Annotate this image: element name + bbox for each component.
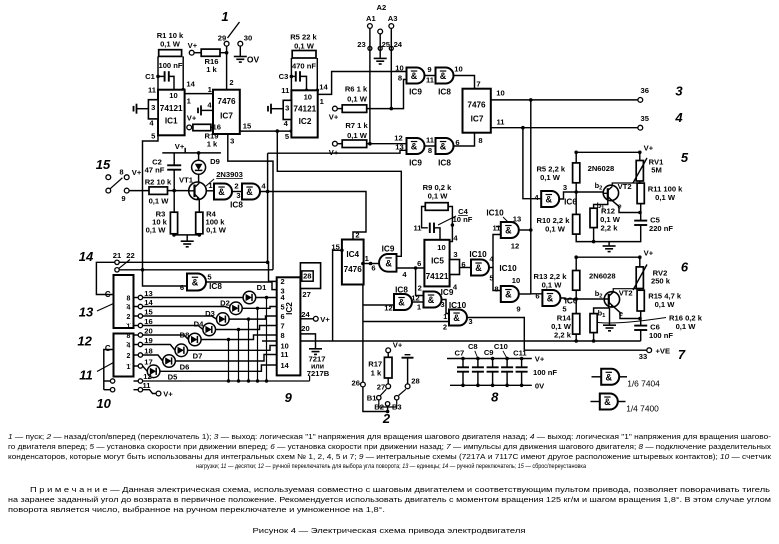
R5 left lead down: [290, 58, 292, 90]
bus stub at 257.5: [257, 308, 259, 381]
svg-text:12: 12: [77, 334, 92, 349]
junction A3/R6 wire: [390, 107, 394, 111]
V+ rail left dot s5: [574, 151, 578, 155]
svg-text:&: &: [505, 290, 512, 300]
svg-text:V+: V+: [132, 168, 142, 177]
svg-text:C9: C9: [484, 348, 494, 357]
svg-text:8: 8: [398, 74, 402, 83]
resistor R16: [201, 49, 220, 56]
capacitor C1: [165, 71, 169, 81]
capacitor C10: [501, 367, 513, 371]
capacitor C11 top lead: [521, 359, 523, 368]
svg-text:47 nF: 47 nF: [145, 166, 165, 175]
contact 9: [124, 188, 129, 193]
resistor R4: [196, 212, 203, 234]
svg-text:9: 9: [285, 390, 293, 405]
svg-text:7217В: 7217В: [307, 369, 330, 378]
nand IC9 top: [407, 68, 425, 84]
svg-text:C1: C1: [145, 72, 155, 81]
svg-text:100 nF: 100 nF: [158, 61, 182, 70]
svg-text:V+: V+: [163, 390, 173, 399]
switch pin stub row 13: [134, 297, 139, 299]
row12 stub: [134, 380, 139, 382]
IC10e out to +VE: [467, 318, 647, 351]
svg-text:12: 12: [511, 242, 519, 251]
svg-text:24: 24: [394, 40, 403, 49]
IC10t leader: [503, 217, 508, 222]
terminal 21: [115, 260, 119, 264]
resistor R9: [425, 203, 448, 211]
wire row 20 to IC2: [201, 335, 277, 340]
junction C1 left: [156, 75, 160, 79]
junction C10 top: [505, 357, 509, 361]
svg-text:&: &: [440, 142, 447, 152]
terminal A3: [389, 24, 394, 29]
svg-text:4: 4: [127, 342, 131, 349]
wire W3: [277, 131, 401, 256]
svg-text:2: 2: [234, 182, 238, 191]
svg-text:&: &: [453, 313, 460, 323]
svg-text:V+: V+: [644, 144, 654, 153]
nand IC6 a: [541, 191, 559, 207]
wire output 36: [491, 99, 638, 101]
nand IC8 c: [187, 274, 206, 291]
svg-text:10: 10: [169, 91, 177, 100]
RV2 arrow: [633, 265, 647, 291]
R14 top lead: [575, 299, 577, 314]
stub top dot 238.5: [237, 328, 240, 331]
C4 right lead: [434, 228, 440, 240]
svg-text:&: &: [385, 259, 392, 269]
capacitor C3: [296, 71, 300, 81]
svg-text:13: 13: [79, 305, 94, 320]
svg-text:V+: V+: [187, 114, 197, 123]
contact A2 jumper: [378, 46, 382, 50]
svg-text:C7: C7: [455, 348, 465, 357]
svg-text:8: 8: [127, 295, 131, 302]
svg-text:11: 11: [142, 381, 151, 390]
svg-text:3: 3: [675, 84, 683, 99]
svg-text:100 nF: 100 nF: [533, 368, 557, 377]
wire W2 vertical: [267, 153, 269, 262]
IC2 7217 crystal frame outer: [300, 263, 320, 289]
wire row 17 to IC2: [160, 365, 277, 371]
wire row 17: [143, 366, 148, 371]
stub top dot 257.5: [256, 307, 259, 310]
IC6b out to VT2 base: [560, 298, 604, 299]
svg-text:1 — пуск; 2 — назад/стоп/впер: 1 — пуск; 2 — назад/стоп/вперед (переклю…: [8, 432, 772, 441]
IC2 pin3 box: [283, 100, 291, 119]
junction R14 rail: [574, 339, 578, 343]
svg-text:&: &: [604, 397, 611, 407]
svg-text:IC7: IC7: [220, 112, 233, 121]
junction wire35: [521, 126, 525, 130]
svg-text:D4: D4: [194, 320, 204, 329]
svg-text:10: 10: [304, 92, 312, 101]
counter IC2 7217 body: [277, 277, 301, 375]
R19 right lead: [211, 126, 213, 128]
svg-text:36: 36: [640, 86, 648, 95]
wire row 13 to IC2: [256, 297, 277, 299]
svg-text:IC8: IC8: [230, 201, 243, 210]
svg-text:0,1 W: 0,1 W: [655, 300, 676, 309]
contact 28: [405, 384, 410, 389]
svg-text:14: 14: [79, 249, 94, 264]
R3 bottom lead: [174, 234, 199, 235]
terminal 10b: [110, 388, 114, 392]
wire IC4 pin15 down to rail: [333, 250, 342, 341]
row11 stub: [134, 389, 139, 391]
R5 right lead down: [316, 58, 318, 90]
nand IC9 bottom: [407, 138, 425, 154]
svg-text:IC8: IC8: [209, 282, 222, 291]
svg-text:IC8: IC8: [395, 286, 408, 295]
terminal A2: [378, 29, 383, 34]
e lead to C5 s5: [612, 201, 640, 213]
V+ terminal R7: [333, 141, 338, 146]
svg-text:10: 10: [437, 243, 445, 252]
svg-text:0,1 W: 0,1 W: [542, 281, 563, 290]
wire IC8b out to IC4 pin2: [260, 192, 366, 239]
svg-text:R7 1 k: R7 1 k: [345, 121, 368, 130]
svg-text:2,2 k: 2,2 k: [554, 330, 572, 339]
svg-text:8: 8: [491, 390, 499, 405]
R16 leader curve: [598, 318, 666, 323]
stub bottom dot 257.5: [256, 379, 259, 382]
wire IC7 pin3 down: [228, 134, 273, 270]
vertical from IC1 pin5: [143, 135, 188, 286]
svg-text:IC9: IC9: [441, 288, 454, 297]
R17 bottom lead: [387, 378, 389, 384]
svg-text:0V: 0V: [535, 382, 545, 391]
switch pin stub row 20: [134, 334, 139, 336]
7400 output stub: [618, 401, 626, 403]
svg-text:R17: R17: [368, 360, 382, 369]
svg-text:5: 5: [281, 303, 285, 312]
svg-text:28: 28: [303, 272, 311, 281]
ground 0V: [234, 57, 247, 63]
switch pin 19: [138, 342, 142, 346]
C6 bottom lead: [640, 330, 642, 341]
junction IC4 pin1: [361, 262, 365, 266]
svg-text:D6: D6: [180, 363, 190, 372]
svg-text:R2 10 k: R2 10 k: [145, 177, 172, 186]
junction C10 bottom: [505, 384, 509, 388]
svg-text:0,1 W: 0,1 W: [540, 173, 561, 182]
wire 21 to IC2 pin2: [119, 262, 277, 281]
IC10t input stub: [496, 226, 501, 228]
switch pin 20: [138, 333, 142, 337]
svg-text:D3: D3: [205, 309, 215, 318]
svg-text:1 k: 1 k: [371, 369, 382, 378]
svg-text:1: 1: [127, 364, 131, 371]
svg-text:0,1 W: 0,1 W: [545, 225, 566, 234]
svg-text:9: 9: [121, 194, 125, 203]
svg-text:&: &: [440, 71, 447, 81]
B2 to bottom: [387, 406, 389, 412]
terminal 33 +VE: [647, 348, 652, 353]
svg-text:3: 3: [440, 300, 444, 309]
IC9d out to IC10e: [442, 300, 450, 314]
capacitor C9 top lead: [492, 359, 494, 368]
capacitor C11 bottom lead: [521, 372, 523, 386]
switch15 pole a: [106, 175, 111, 180]
IC8c out to IC2 pin3: [206, 282, 277, 290]
svg-text:2: 2: [127, 314, 131, 321]
junction IC9c out: [414, 266, 418, 270]
svg-text:7: 7: [281, 322, 285, 331]
svg-text:0,1 W: 0,1 W: [146, 226, 167, 235]
svg-text:14: 14: [319, 83, 328, 92]
wire row 14 to IC2: [242, 307, 277, 309]
svg-text:11: 11: [496, 118, 505, 127]
one-shot IC5 74121 body: [424, 240, 449, 287]
svg-text:10: 10: [395, 64, 403, 73]
svg-text:1/4 7400: 1/4 7400: [626, 404, 659, 414]
R10 top lead: [575, 192, 577, 214]
b1 lead s5: [594, 199, 608, 208]
junction C11 bottom: [520, 384, 524, 388]
V+ dot section6: [638, 255, 642, 259]
R3 top lead: [173, 191, 175, 213]
lower C wire: [104, 350, 114, 390]
svg-text:3: 3: [453, 250, 457, 259]
wire IC2 pin1 up right: [318, 72, 407, 95]
wire IC4 out to IC9c: [364, 263, 380, 265]
svg-text:7217: 7217: [309, 355, 326, 364]
svg-text:470 nF: 470 nF: [292, 62, 316, 71]
R17 top lead: [387, 353, 389, 358]
svg-text:3: 3: [230, 137, 234, 146]
vertical IC9c to IC9d: [416, 268, 424, 296]
C4 leader: [438, 216, 456, 225]
IC10t out to bus: [519, 229, 531, 231]
C8 label leader: [475, 351, 478, 359]
svg-text:20: 20: [144, 327, 152, 336]
resistor R17: [384, 357, 392, 378]
wire 11 to V+: [143, 390, 157, 394]
resistor R2: [149, 187, 168, 195]
svg-text:IC10: IC10: [486, 209, 504, 218]
switch pin 14: [138, 304, 142, 308]
junction R5v on base wire: [574, 190, 578, 194]
transistor VT2 section5: [603, 185, 618, 201]
svg-text:OV: OV: [247, 55, 260, 65]
svg-text:74121: 74121: [426, 272, 449, 281]
capacitor C4: [430, 223, 434, 233]
svg-text:0,1 W: 0,1 W: [206, 226, 227, 235]
wire row 18: [143, 355, 163, 361]
lever 27 to B1: [380, 389, 386, 395]
junction C2/R3: [172, 189, 176, 193]
ground stub s5: [608, 242, 610, 246]
rheostat RV2: [636, 267, 643, 289]
svg-text:0,1 W: 0,1 W: [347, 131, 368, 140]
V+ terminal R19: [187, 125, 192, 130]
R12 bottom lead: [593, 228, 595, 242]
resistor R12: [590, 208, 597, 227]
7404 output stub: [619, 376, 627, 378]
svg-text:B1: B1: [367, 393, 377, 402]
svg-text:6: 6: [461, 260, 465, 269]
svg-text:7: 7: [476, 80, 480, 89]
svg-text:2: 2: [127, 353, 131, 360]
svg-text:74121: 74121: [293, 105, 316, 114]
switch15 lever: [110, 178, 122, 189]
resistor R5 22k: [292, 51, 316, 59]
V+ dot section5: [638, 151, 642, 155]
svg-text:9: 9: [516, 305, 520, 314]
svg-text:&: &: [411, 71, 418, 81]
svg-text:IC9: IC9: [409, 88, 422, 97]
wire IC8 top to IC7 pin7: [454, 76, 475, 89]
svg-text:10: 10: [512, 276, 520, 285]
wire A3 vertical: [390, 28, 392, 108]
svg-text:нагрузки; 11 — десятки; 12 — р: нагрузки; 11 — десятки; 12 — ручной пере…: [196, 462, 586, 470]
junction pin15 wire: [276, 129, 280, 133]
resistor R13: [573, 271, 580, 291]
svg-text:IC8: IC8: [438, 88, 451, 97]
svg-text:R5 22 k: R5 22 k: [290, 33, 317, 42]
svg-text:11: 11: [426, 136, 435, 145]
row12 bus: [143, 380, 310, 382]
wire 9 to R2: [129, 190, 149, 192]
svg-text:VT2: VT2: [619, 289, 633, 298]
junction C7 bottom: [461, 384, 465, 388]
svg-text:&: &: [606, 372, 613, 382]
stub top dot 228.5: [227, 338, 230, 341]
wire row 19: [143, 345, 175, 351]
junction R16v rail: [592, 339, 596, 343]
svg-text:6: 6: [417, 259, 421, 268]
lever 28 to B3: [399, 389, 406, 395]
wire IC9c out: [397, 267, 425, 269]
contact A3 jumper: [389, 46, 393, 50]
thumbwheel switch lower: [114, 334, 134, 377]
wire IC7 pin15 to IC2 pin5: [240, 130, 292, 132]
junction pin15 at IC2: [290, 129, 294, 133]
resistor R16 0.2k: [590, 314, 597, 333]
svg-text:7476: 7476: [467, 101, 486, 110]
svg-text:IC2: IC2: [299, 117, 312, 126]
svg-text:Рисунок 4 — Электрическая схем: Рисунок 4 — Электрическая схема привода …: [253, 526, 526, 535]
svg-text:8: 8: [428, 146, 432, 155]
wire 28 vertical: [407, 358, 409, 384]
junction W2/IC8b wire: [266, 190, 270, 194]
switch pin 11: [138, 388, 142, 392]
B3 to bottom: [388, 400, 397, 407]
diode D3: [217, 313, 230, 326]
ground at IC7 pin4: [198, 105, 201, 115]
stub top dot 266.5: [265, 296, 268, 299]
contact B2: [385, 402, 389, 406]
ground between R3 R4: [181, 241, 194, 247]
IC2 7217 crystal frame inner: [302, 271, 313, 281]
resistor R1: [159, 50, 182, 57]
svg-text:&: &: [218, 187, 225, 197]
spare gate 7400: [600, 394, 618, 410]
svg-text:11: 11: [426, 76, 435, 85]
svg-text:8: 8: [478, 136, 482, 145]
svg-text:IC2: IC2: [285, 302, 294, 315]
svg-text:5: 5: [681, 150, 689, 165]
svg-text:3: 3: [236, 191, 240, 200]
junction C8 bottom: [476, 384, 480, 388]
V+ rail left dot s6: [574, 255, 578, 259]
capacitor C9 bottom lead: [492, 372, 494, 386]
switch pin 15: [138, 314, 142, 318]
stub bottom dot 266.5: [265, 379, 268, 382]
V+ tick: [184, 148, 186, 153]
svg-text:C10: C10: [494, 342, 508, 351]
junction C8 top: [476, 357, 480, 361]
R1 left lead down: [157, 56, 159, 89]
svg-text:D5: D5: [168, 373, 178, 382]
svg-text:R6 1 k: R6 1 k: [345, 85, 368, 94]
junction C9 bottom: [491, 384, 495, 388]
svg-text:2: 2: [355, 231, 359, 240]
junction R9 loop: [451, 223, 455, 227]
svg-text:&: &: [192, 278, 199, 288]
switch pin 13: [138, 295, 142, 299]
ground A2: [374, 58, 387, 64]
switch15 pole b: [106, 188, 111, 193]
svg-text:15: 15: [243, 122, 252, 131]
capacitor C7 bottom lead: [462, 372, 464, 386]
terminal 35: [638, 125, 643, 130]
nand IC8 mid: [394, 294, 412, 310]
svg-text:4: 4: [674, 110, 683, 125]
junction 22/vertical: [141, 268, 145, 272]
svg-text:A1: A1: [366, 14, 376, 23]
ground lead IC2 pin3: [272, 108, 284, 110]
junction R13 base wire: [574, 297, 578, 301]
svg-text:0,1 W: 0,1 W: [149, 197, 170, 206]
wire output 35: [491, 127, 638, 129]
nand IC10 e: [449, 310, 467, 326]
svg-text:IC1: IC1: [165, 117, 178, 126]
wire 10b: [104, 389, 111, 391]
junction e/R11/C5: [638, 211, 642, 215]
ground pin20: [309, 349, 322, 355]
terminal 22: [115, 268, 119, 272]
capacitor C8 top lead: [477, 359, 479, 368]
rheostat RV1: [636, 161, 643, 182]
svg-text:0,1 W: 0,1 W: [160, 40, 181, 49]
wire A1 vertical: [369, 28, 371, 143]
IC10b out to bus: [519, 293, 531, 295]
wire pin24 to V+: [300, 318, 313, 320]
junction R5 right/IC2 pin14: [316, 89, 320, 93]
junction R3 bottom: [172, 233, 176, 237]
R6 lead left: [337, 108, 342, 110]
svg-text:2: 2: [443, 323, 447, 332]
R4 bottom lead: [198, 234, 200, 235]
capacitor C7 top lead: [462, 359, 464, 368]
svg-text:4: 4: [127, 304, 131, 311]
svg-text:IC10: IC10: [469, 250, 487, 259]
wire 29 to IC7 pin2: [226, 46, 228, 90]
svg-text:12: 12: [411, 294, 419, 303]
R14 bottom lead: [575, 334, 577, 341]
svg-text:74121: 74121: [160, 104, 183, 113]
wire A2 vertical: [379, 34, 381, 58]
svg-text:конденсаторов, которые могут: конденсаторов, которые могут быть исполь…: [8, 452, 772, 461]
ground lead IC1 pin3: [137, 108, 148, 110]
R15 bottom to C6: [640, 311, 642, 326]
svg-text:24: 24: [301, 310, 310, 319]
svg-text:11: 11: [281, 350, 289, 359]
